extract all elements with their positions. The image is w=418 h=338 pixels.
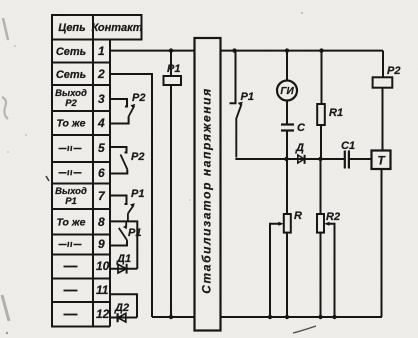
row 6 ditto pin 6 — [59, 166, 106, 180]
wire contact 11 — [110, 294, 137, 317]
contact Р2 pins 5-6 — [110, 147, 144, 174]
resistor R1 — [317, 51, 343, 159]
paper texture — [0, 0, 1, 1]
row 10 dash pin 10 — [64, 259, 110, 273]
row 5 ditto pin 5 — [59, 141, 106, 155]
row 12 dash pin 12 — [64, 307, 110, 321]
relay coil Р2 — [373, 51, 401, 151]
row 1 Сеть pin 1 — [56, 44, 105, 58]
scan marks — [2, 12, 316, 334]
wire contact 1 to top bus — [110, 50, 195, 52]
contact Р1 pins 8-9 — [110, 221, 141, 245]
wire switch to node A — [235, 158, 286, 160]
generator ГИ — [277, 51, 297, 101]
bottom bus wire right — [221, 316, 383, 318]
diode Д — [287, 142, 321, 164]
wire contact 8 — [110, 221, 137, 268]
row 7 Выход Р1 pin 7 — [55, 186, 106, 207]
row 2 Сеть pin 2 — [56, 67, 105, 81]
capacitor С1 — [321, 140, 372, 169]
switch Р1 — [230, 51, 254, 158]
transformer Т — [372, 151, 391, 318]
diode Д2 — [110, 302, 137, 322]
row 8 То же pin 8 — [57, 215, 105, 229]
diode Д1 — [110, 253, 137, 274]
row 4 То же pin 4 — [57, 116, 105, 130]
contact Р2 pins 3-4 — [110, 92, 145, 124]
row 11 dash pin 11 — [64, 283, 109, 297]
row 9 ditto pin 9 — [59, 237, 106, 251]
potentiometer R2 — [317, 159, 340, 317]
relay coil Р1 — [164, 51, 182, 317]
terminal table frame — [51, 15, 143, 327]
contact Р1 pins 7-8 — [110, 188, 144, 221]
bottom bus wire left — [152, 316, 195, 318]
wire contact 2 down — [110, 74, 152, 317]
top bus wire right of stabilizer — [221, 50, 384, 52]
capacitor С — [281, 100, 306, 159]
potentiometer R — [270, 159, 302, 317]
stabilizer box — [195, 38, 221, 331]
row 3 Выход Р2 pin 3 — [55, 88, 105, 109]
